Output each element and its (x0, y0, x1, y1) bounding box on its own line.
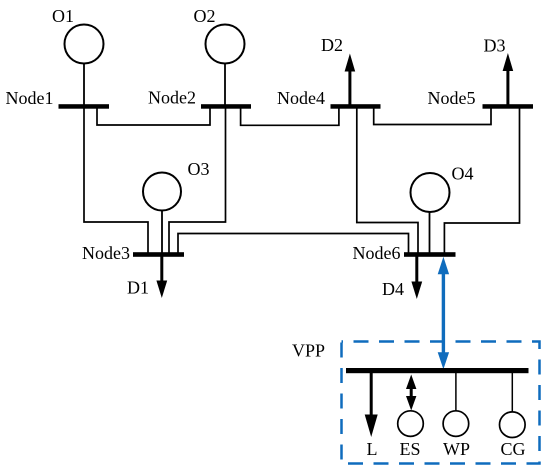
svg-text:Node5: Node5 (428, 88, 476, 108)
conventional generator CG (500, 412, 526, 438)
svg-text:Node6: Node6 (353, 243, 401, 263)
svg-text:O4: O4 (452, 164, 474, 184)
busbar Node2 (201, 104, 251, 109)
svg-text:VPP: VPP (292, 341, 325, 361)
svg-text:D2: D2 (321, 35, 343, 55)
busbar Node1 (59, 104, 110, 109)
svg-text:D4: D4 (382, 279, 404, 299)
svg-text:Node4: Node4 (277, 88, 325, 108)
blue double arrow Node6-VPP (438, 257, 449, 369)
load arrow L (365, 373, 378, 437)
generator O2 (206, 25, 245, 64)
busbar Node5 (483, 104, 534, 109)
busbar Node4 (331, 104, 381, 109)
svg-text:Node3: Node3 (82, 243, 130, 263)
line Node4-Node6 (357, 108, 418, 254)
line Node3-Node6 (178, 234, 409, 255)
line Node5-Node6 (444, 108, 519, 254)
line Node2-Node3 (169, 108, 226, 254)
wire O1 lead (83, 64, 85, 106)
busbar VPP (346, 368, 529, 373)
svg-text:O2: O2 (194, 6, 216, 26)
generator O1 (65, 25, 104, 64)
svg-text:O3: O3 (188, 159, 210, 179)
load arrow D2 (345, 54, 356, 105)
line Node1-Node2 (97, 108, 210, 125)
svg-text:CG: CG (501, 439, 526, 459)
generator O4 (411, 173, 450, 212)
svg-text:L: L (367, 439, 378, 459)
svg-text:Node2: Node2 (148, 88, 196, 108)
wire CG lead (511, 373, 513, 412)
ES double arrow (406, 375, 416, 411)
busbar Node6 (404, 252, 456, 257)
generator O3 (143, 173, 181, 211)
svg-text:O1: O1 (52, 6, 74, 26)
load arrow D3 (503, 53, 514, 105)
line Node4-Node5 (374, 108, 491, 125)
energy storage ES (398, 411, 424, 437)
svg-text:ES: ES (400, 439, 421, 459)
line Node2-Node4 (241, 108, 339, 125)
load arrow D4 (411, 257, 422, 300)
svg-text:D1: D1 (127, 278, 149, 298)
svg-text:WP: WP (443, 439, 470, 459)
VPP boundary dashed box (342, 342, 540, 464)
wind plant WP (443, 411, 469, 437)
wire O4 lead (429, 212, 431, 254)
wire O3 lead (161, 211, 163, 255)
load arrow D1 (156, 257, 167, 299)
wire O2 lead (224, 64, 226, 106)
line Node1-Node3 (84, 108, 148, 254)
svg-text:D3: D3 (484, 36, 506, 56)
wire WP lead (455, 373, 457, 411)
busbar Node3 (133, 252, 184, 257)
svg-text:Node1: Node1 (6, 88, 54, 108)
